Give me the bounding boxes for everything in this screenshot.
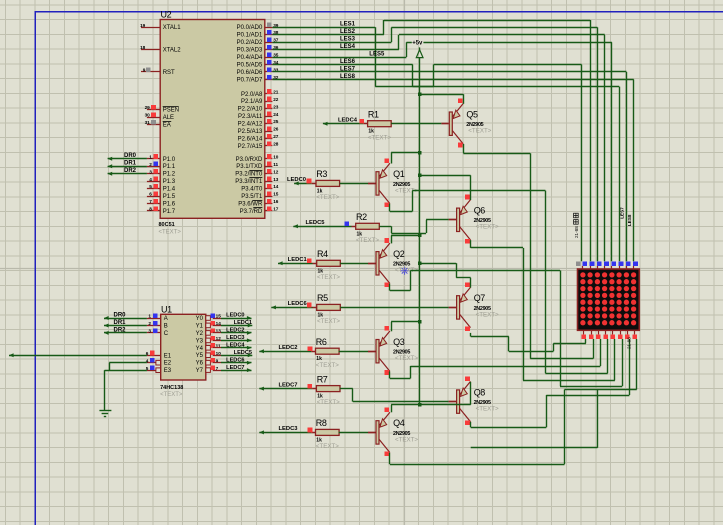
svg-text:1: 1: [148, 314, 151, 319]
svg-text:LEDC6: LEDC6: [226, 357, 244, 363]
svg-text:E1: E1: [164, 353, 172, 359]
svg-text:LES8: LES8: [340, 74, 356, 80]
svg-text:LES7: LES7: [340, 66, 356, 72]
svg-text:C: C: [164, 331, 169, 337]
svg-text:Y5: Y5: [196, 353, 204, 359]
svg-text:<TEXT>: <TEXT>: [468, 128, 491, 135]
svg-text:P3.2/INT0: P3.2/INT0: [235, 172, 263, 178]
svg-text:LES4: LES4: [340, 44, 356, 50]
svg-text:1: 1: [149, 154, 152, 159]
svg-text:P0.4/AD4: P0.4/AD4: [237, 55, 263, 61]
svg-text:LES6: LES6: [340, 59, 356, 65]
svg-text:P3.3/INT1: P3.3/INT1: [235, 179, 263, 185]
svg-text:P3.6/WR: P3.6/WR: [238, 202, 263, 208]
svg-text:E3: E3: [164, 368, 172, 374]
svg-text:P1.7: P1.7: [163, 209, 176, 215]
svg-text:24: 24: [273, 112, 279, 117]
svg-text:XTAL2: XTAL2: [163, 48, 182, 54]
svg-text:E2: E2: [164, 361, 172, 367]
svg-text:LES7: LES7: [619, 207, 624, 219]
svg-text:LEDC1: LEDC1: [288, 257, 308, 263]
svg-text:P1.0: P1.0: [163, 157, 176, 163]
svg-text:Y1: Y1: [196, 323, 204, 329]
svg-text:P0.7/AD7: P0.7/AD7: [237, 77, 263, 83]
svg-text:DR1: DR1: [124, 161, 137, 167]
svg-text:<TEXT>: <TEXT>: [368, 134, 391, 141]
svg-text:LEDC4: LEDC4: [226, 342, 245, 348]
svg-text:LEDC2: LEDC2: [226, 328, 244, 334]
svg-text:R3: R3: [316, 169, 327, 179]
svg-text:U2: U2: [161, 10, 172, 20]
svg-text:10: 10: [273, 154, 279, 159]
svg-text:31: 31: [145, 120, 151, 125]
svg-text:LEDC5: LEDC5: [234, 350, 252, 356]
svg-text:25: 25: [273, 119, 279, 124]
svg-text:LES8: LES8: [627, 214, 632, 226]
svg-text:DR2: DR2: [124, 168, 137, 174]
svg-text:<TEXT>: <TEXT>: [476, 224, 499, 231]
svg-text:DR2: DR2: [113, 327, 126, 333]
svg-text:LEDC5: LEDC5: [305, 220, 325, 226]
svg-text:Q3: Q3: [393, 337, 405, 347]
svg-text:LEDC0: LEDC0: [287, 177, 306, 183]
svg-text:9: 9: [143, 68, 146, 73]
svg-text:74HC138: 74HC138: [160, 385, 183, 391]
svg-text:2: 2: [149, 162, 152, 167]
svg-text:P1.3: P1.3: [163, 179, 176, 185]
svg-text:LEDC3: LEDC3: [226, 335, 244, 341]
svg-text:Y6: Y6: [196, 361, 204, 367]
svg-text:<TEXT>: <TEXT>: [316, 443, 339, 450]
svg-text:R2: R2: [356, 212, 367, 222]
svg-text:6: 6: [149, 192, 152, 197]
svg-text:<TEXT>: <TEXT>: [159, 230, 182, 236]
svg-text:U1: U1: [161, 304, 172, 314]
svg-text:Q1: Q1: [393, 169, 405, 179]
svg-text:<TEXT>: <TEXT>: [160, 392, 183, 398]
svg-text:EA: EA: [163, 122, 171, 128]
svg-text:Q6: Q6: [474, 206, 486, 216]
svg-text:P1.1: P1.1: [163, 164, 176, 170]
svg-text:P3.4/T0: P3.4/T0: [241, 187, 263, 193]
svg-text:R1: R1: [368, 110, 379, 120]
svg-text:P0.2/AD2: P0.2/AD2: [237, 40, 263, 46]
svg-text:3: 3: [148, 329, 151, 334]
svg-text:19: 19: [140, 23, 146, 28]
svg-text:DR0: DR0: [113, 312, 126, 318]
svg-text:29: 29: [145, 105, 151, 110]
svg-text:14: 14: [273, 184, 279, 189]
svg-text:P2.6/A14: P2.6/A14: [238, 137, 263, 143]
svg-text:Y4: Y4: [196, 346, 204, 352]
svg-text:Q4: Q4: [393, 418, 405, 428]
svg-text:LEDC4: LEDC4: [338, 118, 358, 124]
svg-text:+5v: +5v: [412, 41, 423, 47]
svg-text:R5: R5: [317, 293, 328, 303]
svg-text:P3.1/TXD: P3.1/TXD: [236, 164, 263, 170]
svg-text:LEDC2: LEDC2: [278, 345, 297, 351]
svg-text:P1.2: P1.2: [163, 172, 176, 178]
svg-text:4: 4: [149, 177, 152, 182]
svg-text:P2.0/A8: P2.0/A8: [241, 92, 263, 98]
svg-text:<TEXT>: <TEXT>: [317, 274, 340, 281]
svg-text:8: 8: [149, 207, 152, 212]
svg-text:28: 28: [273, 142, 279, 147]
svg-text:R4: R4: [317, 249, 328, 259]
svg-text:P0.0/AD0: P0.0/AD0: [237, 25, 263, 31]
svg-text:P0.6/AD6: P0.6/AD6: [237, 70, 263, 76]
svg-text:PSEN: PSEN: [163, 108, 179, 114]
svg-text:<TEXT>: <TEXT>: [356, 237, 379, 244]
svg-text:P2.2/A10: P2.2/A10: [238, 107, 263, 113]
svg-text:P1.5: P1.5: [163, 194, 176, 200]
svg-text:Y7: Y7: [196, 368, 204, 374]
svg-text:LEDC1: LEDC1: [234, 320, 252, 326]
svg-text:P2.5/A13: P2.5/A13: [238, 129, 263, 135]
svg-text:LES2: LES2: [340, 29, 356, 35]
svg-text:<TEXT>: <TEXT>: [476, 406, 499, 413]
svg-text:P0.3/AD3: P0.3/AD3: [237, 48, 263, 54]
svg-text:P1.4: P1.4: [163, 187, 176, 193]
svg-text:P1.6: P1.6: [163, 202, 176, 208]
svg-text:DR1: DR1: [113, 320, 126, 326]
svg-text:5: 5: [149, 184, 152, 189]
svg-text:<TEXT>: <TEXT>: [317, 318, 340, 325]
svg-text:23: 23: [273, 104, 279, 109]
svg-text:LEDC0: LEDC0: [226, 313, 244, 319]
svg-text:LES5: LES5: [369, 51, 385, 57]
svg-text:<TEXT>: <TEXT>: [317, 399, 340, 406]
svg-text:LEDC6: LEDC6: [288, 301, 308, 307]
svg-text:P2.1/A9: P2.1/A9: [241, 99, 263, 105]
svg-text:LES3: LES3: [340, 37, 356, 43]
svg-text:17: 17: [273, 207, 279, 212]
svg-text:12: 12: [273, 169, 279, 174]
svg-text:LEDC7: LEDC7: [226, 365, 244, 371]
svg-text:R7: R7: [317, 374, 328, 384]
svg-text:B: B: [164, 324, 168, 330]
svg-text:21-88: 21-88: [627, 337, 632, 349]
svg-text:13: 13: [273, 177, 279, 182]
svg-text:DR0: DR0: [124, 153, 137, 159]
svg-text:80C51: 80C51: [159, 222, 175, 228]
svg-text:RST: RST: [163, 70, 175, 76]
svg-text:<TEXT>: <TEXT>: [395, 355, 418, 362]
svg-text:Y3: Y3: [196, 338, 204, 344]
svg-text:LEDC7: LEDC7: [278, 382, 297, 388]
svg-text:3: 3: [149, 169, 152, 174]
svg-text:15: 15: [273, 192, 279, 197]
svg-text:21-88: 21-88: [574, 226, 579, 238]
svg-text:P3.5/T1: P3.5/T1: [241, 194, 263, 200]
svg-text:26: 26: [273, 127, 279, 132]
svg-text:R8: R8: [316, 418, 327, 428]
svg-text:18: 18: [140, 45, 146, 50]
svg-text:P2.7/A15: P2.7/A15: [238, 144, 263, 150]
svg-text:P3.7/RD: P3.7/RD: [240, 209, 263, 215]
svg-text:7: 7: [149, 199, 152, 204]
svg-text:<TEXT>: <TEXT>: [316, 362, 339, 369]
svg-text:P3.0/RXD: P3.0/RXD: [236, 157, 263, 163]
svg-text:Q7: Q7: [474, 293, 486, 303]
svg-text:Q8: Q8: [474, 387, 486, 397]
svg-text:LES1: LES1: [340, 22, 356, 28]
svg-text:A: A: [164, 316, 168, 322]
svg-text:16: 16: [273, 199, 279, 204]
svg-text:P0.5/AD5: P0.5/AD5: [237, 63, 263, 69]
svg-text:11: 11: [273, 162, 278, 167]
svg-text:2: 2: [148, 321, 151, 326]
svg-text:<TEXT>: <TEXT>: [316, 194, 339, 201]
svg-text:Y0: Y0: [196, 316, 204, 322]
svg-text:30: 30: [145, 113, 151, 118]
svg-text:22: 22: [273, 97, 279, 102]
svg-text:21: 21: [273, 89, 279, 94]
svg-text:P2.3/A11: P2.3/A11: [238, 114, 263, 120]
svg-text:LEDC3: LEDC3: [278, 426, 298, 432]
svg-text:XTAL1: XTAL1: [163, 25, 182, 31]
svg-text:<TEXT>: <TEXT>: [395, 436, 418, 443]
svg-text:Q2: Q2: [393, 249, 405, 259]
svg-text:P2.4/A12: P2.4/A12: [238, 122, 263, 128]
svg-text:ALE: ALE: [163, 115, 174, 121]
svg-text:R6: R6: [316, 337, 327, 347]
svg-text:Y2: Y2: [196, 331, 204, 337]
svg-text:P0.1/AD1: P0.1/AD1: [237, 33, 263, 39]
svg-text:Q5: Q5: [466, 110, 478, 120]
svg-text:<TEXT>: <TEXT>: [476, 311, 499, 318]
svg-text:27: 27: [273, 134, 279, 139]
